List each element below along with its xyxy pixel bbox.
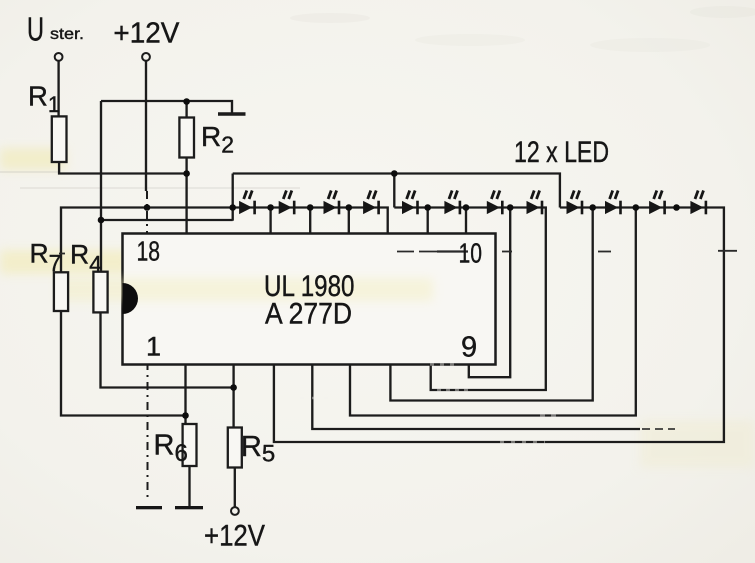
terminal +12V top [142,53,150,61]
wire pin 9 to LED7 cathode [469,208,510,378]
LED D12 [690,191,707,215]
wire drop LED1 cathode [269,208,271,234]
junction LED5 cathode [424,204,431,211]
junction R2 top [183,98,190,105]
resistor R4 [93,272,107,313]
svg-text:+12V: +12V [113,17,179,49]
svg-text:A 277D: A 277D [265,298,352,331]
wire pin 2 to R6 [184,365,186,425]
resistor R6 [183,424,197,466]
crease dash-dot through pin 10 [59,251,737,254]
svg-text:9: 9 [461,332,477,364]
wire R7 bottom to pin 2 node [61,311,186,416]
wire riser LED1 anode [232,174,234,221]
junction rail group2 feed [391,170,398,177]
wire LED feed rail [233,174,560,208]
LED D10 [605,191,622,215]
wire LED row group 2 and pin 8 bus [394,208,546,391]
wire LED10 cathode bus to pin 6 [350,208,636,416]
wire R2 bottom to IC pin 17 [185,158,187,234]
LED D1 [239,191,256,215]
terminal stub bar [218,112,246,115]
junction LED1 anode [229,204,236,211]
svg-text:+12V: +12V [204,520,265,553]
wire U-terminal to R1 [57,61,59,117]
junction R2 bottom [183,170,190,177]
LED D5 [402,191,419,215]
wire LED9 cathode bus to pin 7 [390,208,592,401]
resistor R1 [52,116,67,162]
IC pin-1 marker [123,283,138,314]
wire pin 5 bus faded [312,365,640,430]
wire +12V top rail [101,101,232,114]
wire drop LED5 cathode [427,208,429,234]
wire LED row group 3 and pin 4 bus [274,208,724,443]
resistor R7 [54,272,68,311]
LED D4 [363,191,380,215]
junction LED10 cathode [633,204,640,211]
wire R5 bottom to terminal [234,468,236,507]
wire R6 bottom to ground [188,466,190,506]
wire pin 3 to R5 [232,365,234,428]
wire pin-18/pin-1 dash-dot line [146,191,148,236]
svg-text:ster.: ster. [50,26,84,43]
junction R7 R6 pin 2 [182,412,189,419]
resistor R2 [179,118,194,158]
junction LED6 cathode [463,204,470,211]
IC U1 A277D body [123,234,496,365]
junction LED9 cathode [589,204,596,211]
svg-text:12 x LED: 12 x LED [514,136,609,169]
wire drop LED3 cathode [348,208,350,234]
junction +12V row [144,204,151,211]
wire +12V terminal down [145,61,147,191]
ground bar under R6 [175,506,203,509]
LED D3 [324,191,341,215]
wire drop LED2 cathode [309,208,311,234]
wire drop LED6 cathode [465,208,467,234]
ground bar left [136,506,162,509]
LED D6 [444,191,461,215]
wire branch y220 [101,219,233,221]
junction left bus y220 [98,217,105,224]
terminal +12V bottom [231,507,239,515]
LED D2 [279,191,296,215]
junction LED3 cathode [346,204,353,211]
svg-text:U: U [27,10,44,47]
junction LED2 cathode [307,204,314,211]
LED D7 [487,191,504,215]
junction LED7 cathode [507,204,514,211]
junction LED11 cathode [673,204,680,211]
junction LED1 cathode [267,204,274,211]
LED D11 [649,191,666,215]
terminal U ster. [55,53,63,61]
wire R7 riser and LED row group 1 [61,208,388,273]
wire feed riser group 2 [393,174,395,208]
LED D9 [567,191,584,215]
wire R4 bottom to pin 3 node [101,312,234,387]
LED D8 [527,191,544,215]
wire R2 top [185,102,187,118]
svg-text:10: 10 [459,238,483,269]
wire R1 bottom to R2 bottom rail [59,162,187,174]
svg-text:18: 18 [137,236,161,267]
resistor R5 [228,428,242,468]
wire left bus to R4 [100,101,102,272]
junction R4 R5 pin 3 [230,384,237,391]
svg-text:1: 1 [146,332,161,362]
